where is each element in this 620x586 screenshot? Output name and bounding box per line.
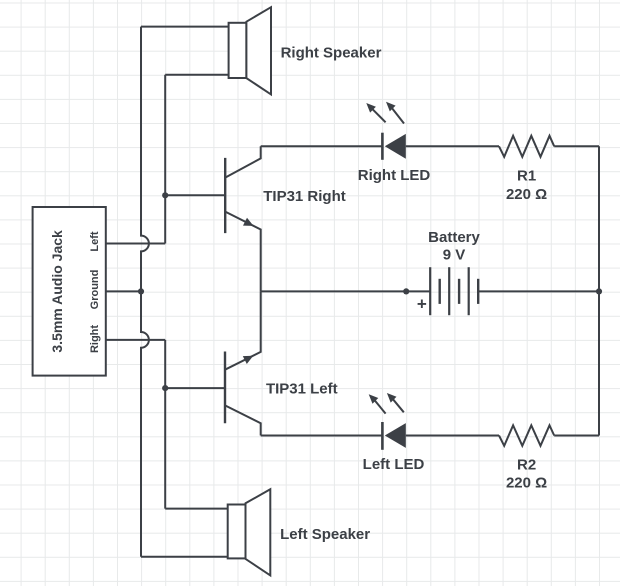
transistor Q2 collector lead xyxy=(225,405,261,435)
speaker: Left Speaker body xyxy=(228,505,246,559)
wire: right signal bus (vertical) xyxy=(164,340,166,509)
wire: Q2 collector row to LED2 xyxy=(261,435,383,437)
wire: R1 to right bus xyxy=(554,145,599,147)
transistor Q1 emitter arrow xyxy=(243,218,254,226)
battery BT1 long plate 3 xyxy=(468,267,470,315)
led D2 light arrow 2 xyxy=(387,393,404,412)
wire: LED to R1 xyxy=(406,145,499,147)
junction: Q2 base tap xyxy=(162,385,168,391)
wire: Q2 base lead xyxy=(165,387,224,389)
transistor Q2 (TIP31 Left) base bar xyxy=(224,352,226,424)
wire: top speaker bottom lead xyxy=(165,74,228,76)
wire: jack Left pin lead xyxy=(105,243,165,245)
svg-text:Left Speaker: Left Speaker xyxy=(280,526,370,543)
battery BT1 short plate 1 xyxy=(439,279,441,304)
svg-text:R1: R1 xyxy=(517,168,536,185)
svg-text:220 Ω: 220 Ω xyxy=(506,475,547,492)
resistor R1 zigzag xyxy=(499,136,554,157)
led D2 triangle xyxy=(385,423,406,448)
wire: right bus vertical xyxy=(598,146,600,435)
wire: jack Ground pin lead xyxy=(105,290,141,292)
transistor Q1 (TIP31 Right) base bar xyxy=(224,158,226,233)
led D1 light arrow 2 xyxy=(386,102,404,124)
wire: jack Right pin lead xyxy=(105,339,165,341)
svg-text:TIP31 Left: TIP31 Left xyxy=(266,381,338,398)
audio jack box xyxy=(33,207,106,376)
transistor Q1 collector lead xyxy=(225,146,261,177)
svg-text:Right Speaker: Right Speaker xyxy=(281,45,382,62)
led D2 light arrow 1 xyxy=(369,394,386,413)
svg-text:220 Ω: 220 Ω xyxy=(506,186,547,203)
svg-text:Right: Right xyxy=(89,325,101,353)
junction: battery left node xyxy=(403,288,409,294)
wire: left signal bus (vertical) xyxy=(164,75,166,244)
speaker: Right Speaker body xyxy=(229,23,247,78)
junction: right bus / battery xyxy=(596,288,602,294)
svg-text:Right LED: Right LED xyxy=(358,167,431,184)
battery BT1 long plate 2 xyxy=(448,267,450,315)
wire: ground bus (left vertical) with hops xyxy=(141,27,149,557)
svg-text:3.5mm Audio Jack: 3.5mm Audio Jack xyxy=(49,230,65,353)
svg-text:TIP31 Right: TIP31 Right xyxy=(263,188,346,205)
transistor Q1 emitter lead xyxy=(225,212,261,292)
svg-text:+: + xyxy=(417,294,427,313)
svg-text:R2: R2 xyxy=(517,457,536,474)
svg-text:Battery: Battery xyxy=(428,229,480,246)
svg-text:Ground: Ground xyxy=(89,270,101,310)
wire: bottom speaker top lead xyxy=(165,508,228,510)
junction: Q1 base tap xyxy=(162,192,168,198)
speaker: Right Speaker cone xyxy=(246,7,271,94)
wire: emitters to battery xyxy=(261,290,430,292)
speaker: Left Speaker cone xyxy=(246,489,271,575)
wire: battery to right bus xyxy=(478,290,599,292)
wire: bottom speaker bottom lead xyxy=(141,556,228,558)
led D1 triangle xyxy=(385,134,406,159)
wire: Q1 base lead xyxy=(165,194,224,196)
transistor Q2 emitter arrow xyxy=(243,356,254,364)
led D1 (Right LED) cathode bar xyxy=(381,133,384,160)
wire: top speaker top lead xyxy=(141,26,229,28)
svg-text:9 V: 9 V xyxy=(443,246,466,263)
led D1 light arrow 1 xyxy=(366,103,385,122)
battery BT1 short plate 2 xyxy=(458,279,460,304)
junction: ground bus / ground pin xyxy=(138,288,144,294)
battery BT1 long plate 1 xyxy=(429,267,431,315)
transistor Q2 emitter lead xyxy=(225,291,261,369)
led D2 (Left LED) cathode bar xyxy=(381,422,384,450)
svg-text:Left: Left xyxy=(89,231,101,252)
wire: R2 to right bus xyxy=(554,435,599,437)
wire: LED2 to R2 xyxy=(406,435,499,437)
resistor R2 zigzag xyxy=(499,425,554,446)
battery BT1 short plate 3 xyxy=(477,279,479,304)
svg-text:Left LED: Left LED xyxy=(363,456,425,473)
wire: top row collector to LED xyxy=(261,145,383,147)
